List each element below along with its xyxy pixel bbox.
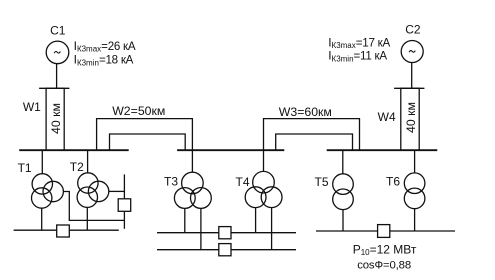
line W3 circuit 1 (outer) with T4 HV feed xyxy=(264,119,360,172)
svg-text:T6: T6 xyxy=(386,175,400,189)
line W1 terminal bar xyxy=(39,87,69,89)
wire: T1 LV to bus D xyxy=(41,208,43,230)
line W4 terminal bar xyxy=(394,87,424,89)
line W2 circuit 2 (inner) xyxy=(110,134,186,150)
wire: T6 LV to bus G xyxy=(414,209,416,231)
transformer T5 xyxy=(333,174,354,210)
wire: T1 HV feed xyxy=(41,150,43,174)
svg-text:IК3max=26 кА: IК3max=26 кА xyxy=(74,39,136,54)
svg-text:cosФ=0,88: cosФ=0,88 xyxy=(357,260,411,272)
wire: T3 LV-b to bus F xyxy=(200,208,202,249)
wire: T2 MV to feeder stub xyxy=(109,190,125,192)
bus F (T3/T4 secondary busbar 2) xyxy=(157,249,296,251)
wire C1 to line W1 xyxy=(56,64,58,89)
wire: feeder stub xyxy=(123,174,125,228)
wire: T6 HV feed xyxy=(414,150,416,173)
svg-text:40 км: 40 км xyxy=(49,103,63,134)
svg-text:C2: C2 xyxy=(405,22,421,36)
line W2 circuit 1 (outer) xyxy=(97,119,193,172)
wire: T1 MV path to feeder stub xyxy=(63,192,124,221)
transformer T3 xyxy=(174,172,211,208)
bus D (T1/T2 secondary busbar) xyxy=(14,229,119,231)
bus A (left 110kV busbar) xyxy=(19,149,129,151)
wire C2 to line W4 xyxy=(411,63,413,89)
svg-text:T4: T4 xyxy=(236,175,250,189)
transformer T1 xyxy=(32,174,64,209)
line W4 box xyxy=(401,88,419,150)
svg-text:IК3min=18 кА: IК3min=18 кА xyxy=(74,53,134,68)
line W1 box xyxy=(46,88,64,150)
load square on feeder stub xyxy=(118,199,131,212)
load square on bus F xyxy=(219,244,231,256)
load square on bus D xyxy=(57,225,70,237)
svg-text:W4: W4 xyxy=(378,110,396,124)
wire: T4 LV-a to bus E xyxy=(255,208,257,233)
svg-text:P10=12 МВт: P10=12 МВт xyxy=(353,242,417,257)
transformer T2 xyxy=(77,173,109,208)
wire: T2 LV to bus D xyxy=(86,207,88,230)
svg-text:T3: T3 xyxy=(164,175,178,189)
svg-text:IК3max=17 кА: IК3max=17 кА xyxy=(328,35,390,50)
bus G (T5/T6 secondary busbar) xyxy=(316,230,455,232)
svg-text:T2: T2 xyxy=(70,160,84,174)
transformer T4 xyxy=(245,171,282,207)
svg-text:W3=60км: W3=60км xyxy=(279,105,332,119)
wire: T4 LV-b to bus F xyxy=(271,208,273,250)
svg-text:W1: W1 xyxy=(23,100,41,114)
bus E (T3/T4 secondary busbar 1) xyxy=(157,232,296,234)
svg-text:C1: C1 xyxy=(50,24,66,38)
load square on bus E xyxy=(219,227,231,239)
load square on bus G xyxy=(378,225,390,238)
bus C (right 110kV busbar) xyxy=(327,149,438,151)
wire: T5 HV feed xyxy=(342,150,344,174)
wire: T2 HV feed xyxy=(87,150,89,173)
wire: T3 LV-a to bus E xyxy=(184,208,186,232)
transformer T6 xyxy=(404,173,425,209)
bus B (middle 110kV busbar) xyxy=(177,149,284,151)
generator C1 xyxy=(46,41,69,64)
line W3 circuit 2 (inner) xyxy=(276,134,353,150)
svg-text:T1: T1 xyxy=(18,161,32,175)
generator C2 xyxy=(401,41,423,63)
svg-text:IК3min=11 кА: IК3min=11 кА xyxy=(328,49,387,64)
svg-text:40 км: 40 км xyxy=(404,102,418,133)
svg-text:W2=50км: W2=50км xyxy=(112,104,165,118)
wire: T5 LV to bus G xyxy=(342,210,344,231)
svg-text:T5: T5 xyxy=(315,175,329,189)
